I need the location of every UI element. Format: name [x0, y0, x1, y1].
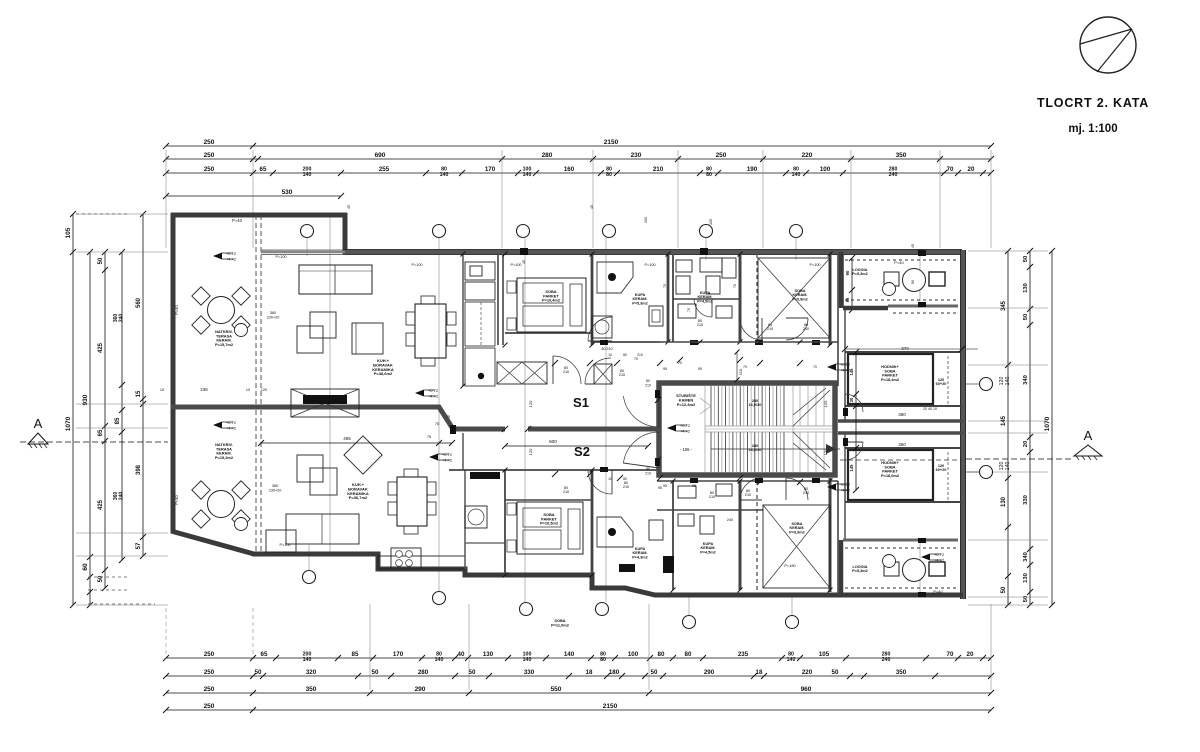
outer wall terrace top-left	[171, 213, 347, 218]
svg-text:P=38,6m2: P=38,6m2	[374, 371, 393, 376]
svg-text:65: 65	[260, 166, 267, 173]
svg-text:15: 15	[136, 390, 142, 397]
svg-text:210: 210	[697, 323, 703, 327]
soba S2 bed	[517, 502, 583, 554]
svg-text:290: 290	[415, 686, 426, 693]
svg-text:425: 425	[98, 499, 104, 510]
loggia lower walls	[839, 540, 844, 595]
corridor wall right of band	[837, 254, 839, 386]
svg-text:145: 145	[1001, 415, 1007, 426]
svg-text:250: 250	[204, 139, 215, 146]
svg-text:140: 140	[435, 657, 444, 663]
svg-text:P=9,9m2: P=9,9m2	[792, 297, 808, 301]
svg-text:P=9,9m2: P=9,9m2	[789, 530, 805, 534]
top dim row segments	[166, 158, 991, 160]
right wing cross walls	[845, 352, 962, 406]
svg-text:350: 350	[896, 669, 907, 676]
left dim 560	[142, 214, 144, 556]
entry door arcs at stair	[623, 396, 659, 427]
dining table S1	[415, 304, 446, 358]
closet dashed upper right	[947, 356, 949, 404]
dining table S2	[397, 477, 427, 526]
svg-text:95: 95	[658, 486, 662, 490]
svg-text:P=40: P=40	[232, 218, 243, 223]
right outer wall	[960, 250, 966, 599]
svg-text:250: 250	[204, 651, 215, 658]
svg-text:60+20: 60+20	[936, 468, 947, 472]
svg-text:20 40 10: 20 40 10	[923, 407, 937, 411]
svg-text:10: 10	[608, 477, 612, 481]
svg-text:P=40: P=40	[174, 304, 179, 314]
loggia upper furniture	[884, 272, 899, 286]
svg-text:230+20: 230+20	[269, 489, 282, 493]
svg-text:180: 180	[609, 669, 620, 676]
svg-text:70: 70	[947, 166, 954, 173]
svg-text:45: 45	[347, 205, 351, 209]
extra fixtures density WC rooms	[678, 304, 696, 318]
svg-text:220: 220	[802, 152, 813, 159]
axis circles bottom	[303, 571, 799, 629]
section dashed line through right wing	[840, 459, 962, 461]
svg-text:140: 140	[440, 172, 449, 178]
right wing vdim	[851, 258, 853, 310]
svg-text:TLOCRT 2. KATA: TLOCRT 2. KATA	[1037, 96, 1149, 110]
svg-text:50: 50	[1001, 586, 1007, 593]
svg-text:690: 690	[375, 152, 386, 159]
svg-text:45: 45	[911, 244, 915, 248]
svg-text:210: 210	[563, 490, 569, 494]
svg-text:140: 140	[303, 172, 312, 178]
top dim row 2150	[166, 145, 991, 147]
svg-text:600: 600	[549, 439, 557, 444]
svg-text:1070: 1070	[1044, 416, 1051, 431]
S2 corridor walls	[462, 433, 464, 470]
svg-text:+0.72: +0.72	[226, 251, 237, 256]
svg-text:- 155 -: - 155 -	[680, 447, 693, 452]
svg-text:P=100: P=100	[510, 263, 521, 267]
kitchen appliances S1	[465, 262, 495, 280]
svg-text:70: 70	[663, 284, 667, 288]
axis lines vertical	[307, 216, 920, 615]
svg-text:120: 120	[528, 400, 533, 407]
section marker A left	[20, 416, 168, 448]
bottom dim row B	[166, 675, 991, 677]
svg-text:57: 57	[136, 542, 142, 549]
svg-text:340: 340	[1023, 375, 1029, 385]
svg-text:145: 145	[849, 368, 854, 376]
svg-text:60: 60	[82, 563, 89, 571]
bottom wall steps	[252, 554, 838, 595]
svg-text:18: 18	[586, 669, 593, 676]
svg-text:90: 90	[845, 270, 850, 275]
S2 kitchen appliance black	[470, 472, 500, 479]
svg-text:110: 110	[738, 368, 743, 375]
top dim row 530	[166, 195, 341, 197]
svg-text:70: 70	[687, 308, 691, 312]
soba S1 bed	[517, 278, 586, 332]
svg-text:15: 15	[160, 388, 164, 392]
svg-text:+4.42: +4.42	[226, 426, 237, 431]
svg-text:70: 70	[813, 365, 817, 369]
svg-text:30: 30	[849, 397, 854, 402]
svg-text:A: A	[1084, 428, 1093, 443]
svg-text:P=4,3m2: P=4,3m2	[632, 555, 648, 559]
S2 kitchen counter bottom	[378, 556, 465, 569]
upper hallway wall above stair	[660, 341, 838, 343]
svg-text:250: 250	[716, 152, 727, 159]
bottom-left diagonal wall	[171, 531, 254, 554]
svg-text:130: 130	[483, 651, 494, 658]
svg-text:50: 50	[98, 575, 104, 582]
svg-text:+4.42: +4.42	[442, 458, 453, 463]
svg-text:45: 45	[522, 260, 526, 264]
svg-text:P=5,3m2: P=5,3m2	[632, 301, 648, 305]
kitchen sink unit on divider	[291, 389, 359, 417]
svg-text:250: 250	[204, 686, 215, 693]
svg-text:50: 50	[651, 669, 658, 676]
double wall right wing	[838, 421, 963, 433]
svg-text:10: 10	[608, 353, 612, 357]
kupa S1 fixtures	[597, 262, 633, 293]
svg-text:210: 210	[623, 485, 629, 489]
svg-text:210: 210	[745, 493, 751, 497]
loggia lower furniture	[884, 562, 899, 576]
svg-text:80: 80	[685, 651, 692, 658]
svg-text:50: 50	[832, 669, 839, 676]
svg-text:+0.72: +0.72	[934, 552, 945, 557]
svg-text:50: 50	[372, 669, 379, 676]
svg-text:240: 240	[727, 518, 733, 522]
right dim chain 1	[1007, 251, 1009, 605]
svg-text:65: 65	[98, 429, 104, 436]
svg-text:80: 80	[646, 467, 650, 471]
svg-text:105: 105	[819, 651, 830, 658]
svg-text:80: 80	[623, 353, 627, 357]
soba S1 walls	[591, 254, 594, 345]
left top dashed	[76, 213, 130, 215]
top dim row detail	[166, 172, 991, 174]
axis circles top	[301, 225, 803, 238]
svg-text:210: 210	[637, 353, 643, 357]
svg-text:250: 250	[204, 669, 215, 676]
gard S1 with X wardrobe	[756, 254, 758, 342]
svg-text:250: 250	[204, 166, 215, 173]
svg-text:100: 100	[644, 217, 648, 223]
door arcs corridor S1	[553, 356, 581, 384]
svg-text:235: 235	[200, 387, 208, 392]
svg-text:50: 50	[98, 257, 104, 264]
svg-text:80: 80	[606, 172, 612, 178]
svg-text:50: 50	[255, 669, 262, 676]
svg-text:P=4,5m2: P=4,5m2	[700, 550, 716, 554]
axis circles right	[966, 378, 993, 479]
svg-text:P=40: P=40	[933, 589, 943, 594]
svg-text:370: 370	[901, 346, 909, 351]
svg-text:280: 280	[418, 669, 429, 676]
kitchen counter row S1	[497, 362, 547, 384]
svg-text:210: 210	[803, 327, 809, 331]
svg-text:495: 495	[343, 436, 351, 441]
svg-text:140: 140	[1005, 377, 1011, 386]
svg-text:210: 210	[645, 384, 651, 388]
svg-text:340: 340	[1023, 552, 1029, 562]
svg-text:210: 210	[803, 491, 809, 495]
stair winder diagonals	[793, 388, 830, 470]
svg-text:+0.72: +0.72	[840, 362, 851, 367]
svg-text:140: 140	[787, 657, 796, 663]
svg-text:560: 560	[136, 297, 142, 308]
stairwell walls	[659, 383, 835, 475]
svg-text:130: 130	[1023, 573, 1029, 583]
svg-text:P=40: P=40	[894, 260, 904, 265]
svg-text:140: 140	[523, 172, 532, 178]
svg-text:240: 240	[119, 492, 125, 501]
loggia upper walls	[839, 252, 844, 308]
svg-text:+4.42: +4.42	[680, 429, 691, 434]
svg-text:250: 250	[204, 152, 215, 159]
armchairs S1	[310, 312, 336, 338]
svg-text:+0.72: +0.72	[840, 482, 851, 487]
svg-text:330: 330	[524, 669, 535, 676]
svg-text:80 210: 80 210	[602, 347, 613, 351]
svg-text:2150: 2150	[603, 703, 618, 710]
svg-text:+4.42: +4.42	[934, 558, 945, 563]
right dim 1070	[1051, 251, 1053, 605]
svg-text:+4.42: +4.42	[428, 394, 439, 399]
svg-text:145: 145	[849, 464, 854, 472]
bottom wall loggia right	[838, 593, 963, 598]
svg-text:120: 120	[528, 448, 533, 455]
section marker A right	[966, 428, 1102, 460]
wall step terrace to main	[343, 213, 348, 254]
svg-text:50: 50	[1023, 596, 1029, 602]
svg-text:+0.72: +0.72	[680, 423, 691, 428]
left dim 1070	[72, 214, 74, 605]
svg-text:+4.42: +4.42	[226, 257, 237, 262]
divider wall S1/S2 left	[171, 407, 505, 429]
svg-text:530: 530	[282, 189, 293, 196]
svg-text:P=15,2m2: P=15,2m2	[215, 455, 234, 460]
stair flight arrow	[711, 448, 840, 450]
svg-text:75: 75	[435, 422, 439, 426]
left bottom dashed rows	[88, 577, 155, 604]
vertical dim 110 corridor	[736, 352, 738, 380]
svg-text:140: 140	[1005, 462, 1011, 471]
svg-text:20: 20	[968, 166, 975, 173]
svg-text:P=11,0m2: P=11,0m2	[551, 622, 570, 627]
extension lines right	[968, 251, 1048, 605]
main top wall	[345, 249, 962, 255]
kitchen column wall	[462, 254, 464, 386]
svg-text:230: 230	[631, 152, 642, 159]
sofa S1 top	[299, 265, 372, 294]
svg-text:105: 105	[65, 227, 72, 238]
left dim 360	[121, 252, 123, 560]
svg-text:140: 140	[564, 651, 575, 658]
svg-text:398: 398	[136, 464, 142, 475]
soba S2 walls	[504, 470, 506, 575]
svg-text:130: 130	[1023, 283, 1029, 293]
right wing door arcs	[845, 394, 863, 412]
svg-text:100: 100	[628, 651, 639, 658]
svg-text:360: 360	[898, 412, 906, 417]
svg-text:P=36,7m2: P=36,7m2	[349, 495, 368, 500]
right dim chain 2	[1029, 251, 1031, 605]
svg-text:80: 80	[646, 379, 650, 383]
extension lines bottom	[166, 608, 253, 654]
svg-text:120: 120	[823, 400, 828, 407]
svg-text:320: 320	[306, 669, 317, 676]
svg-text:+0.72: +0.72	[226, 420, 237, 425]
right wing vdim2	[855, 352, 857, 490]
svg-text:50: 50	[1023, 256, 1029, 262]
left dim 425	[104, 252, 106, 588]
svg-text:210: 210	[709, 495, 715, 499]
svg-text:P=15,7m2: P=15,7m2	[215, 342, 234, 347]
closet dashed lower right	[947, 452, 949, 500]
svg-text:160: 160	[564, 166, 575, 173]
svg-text:80: 80	[706, 172, 712, 178]
svg-text:120: 120	[261, 388, 267, 392]
svg-text:1070: 1070	[65, 416, 72, 431]
svg-text:P=100: P=100	[644, 263, 655, 267]
svg-text:210: 210	[619, 373, 625, 377]
logo circle	[1080, 17, 1136, 73]
svg-text:930: 930	[82, 394, 89, 405]
svg-text:80: 80	[658, 651, 665, 658]
svg-text:210: 210	[563, 370, 569, 374]
svg-text:345: 345	[1001, 300, 1007, 311]
svg-text:mj. 1:100: mj. 1:100	[1068, 123, 1117, 135]
svg-text:P=100: P=100	[279, 543, 290, 547]
svg-text:140: 140	[792, 172, 801, 178]
svg-text:40: 40	[458, 651, 465, 658]
svg-text:75: 75	[446, 415, 450, 419]
gard S2 with X	[756, 481, 758, 590]
svg-text:P=40: P=40	[174, 494, 179, 504]
bottom dim row 2150	[166, 709, 991, 711]
svg-text:P=180: P=180	[784, 563, 796, 568]
stair treads	[711, 386, 784, 472]
svg-text:45: 45	[590, 205, 594, 209]
svg-text:95: 95	[663, 484, 667, 488]
terrace lower table	[192, 481, 250, 531]
svg-text:360: 360	[270, 311, 276, 315]
svg-text:250: 250	[204, 703, 215, 710]
svg-text:190: 190	[747, 166, 758, 173]
svg-text:95: 95	[698, 367, 702, 371]
svg-text:330: 330	[1023, 495, 1029, 505]
svg-text:210: 210	[645, 472, 651, 476]
svg-text:65: 65	[261, 651, 268, 658]
svg-text:140: 140	[523, 657, 532, 663]
svg-text:230+20: 230+20	[267, 316, 280, 320]
svg-text:235: 235	[738, 651, 749, 658]
svg-text:210: 210	[767, 327, 773, 331]
svg-text:50: 50	[1023, 314, 1029, 320]
svg-text:P=18,0m2: P=18,0m2	[881, 473, 900, 478]
svg-text:85: 85	[115, 417, 121, 424]
extension lines top	[166, 150, 991, 248]
svg-text:140: 140	[303, 657, 312, 663]
wc S1 walls	[673, 298, 740, 300]
couch S2	[286, 514, 359, 544]
svg-text:170: 170	[485, 166, 496, 173]
svg-text:P=100: P=100	[275, 255, 286, 259]
bottom dim row detail	[166, 657, 991, 659]
svg-text:2150: 2150	[604, 139, 619, 146]
right corridor walls bottom	[837, 481, 839, 595]
svg-text:360: 360	[272, 484, 278, 488]
under-stair band S2	[657, 480, 838, 482]
divider wall S1/S2 mid	[528, 427, 658, 432]
svg-text:60+20: 60+20	[936, 382, 947, 386]
glazed wall terrace upper (dashed)	[256, 215, 261, 553]
svg-text:75: 75	[427, 435, 431, 439]
bottom dim row C	[166, 692, 991, 694]
svg-text:P=4,5m2: P=4,5m2	[697, 299, 713, 303]
svg-text:70: 70	[733, 284, 737, 288]
svg-text:+0.72: +0.72	[442, 452, 453, 457]
svg-text:255: 255	[379, 166, 390, 173]
svg-text:P=12,3m2: P=12,3m2	[677, 402, 696, 407]
svg-text:P=5,3m2: P=5,3m2	[852, 272, 868, 276]
svg-text:70: 70	[743, 365, 747, 369]
svg-text:90: 90	[911, 280, 915, 284]
svg-text:280: 280	[542, 152, 553, 159]
svg-text:+4.42: +4.42	[840, 488, 851, 493]
svg-text:85: 85	[352, 651, 359, 658]
svg-text:220: 220	[802, 669, 813, 676]
left dim 930	[89, 252, 91, 605]
svg-text:P=10,4m2: P=10,4m2	[542, 298, 561, 303]
svg-text:960: 960	[801, 686, 812, 693]
black thresholds at doors	[450, 248, 926, 597]
svg-text:170: 170	[393, 651, 404, 658]
hallway ticks	[698, 340, 803, 345]
beam line above S1 living	[261, 251, 345, 254]
svg-text:350: 350	[896, 152, 907, 159]
svg-text:240: 240	[889, 172, 898, 178]
svg-text:105: 105	[709, 219, 713, 225]
svg-text:P=5,3m2: P=5,3m2	[852, 569, 868, 573]
kupa S1 walls	[667, 254, 670, 342]
svg-text:+0.72: +0.72	[428, 388, 439, 393]
svg-text:80: 80	[623, 477, 627, 481]
svg-text:80: 80	[600, 657, 606, 663]
room lower right	[848, 450, 933, 500]
svg-text:425: 425	[98, 342, 104, 353]
room upper right	[848, 354, 933, 404]
washer S2	[465, 506, 487, 528]
svg-text:16,0/30: 16,0/30	[749, 403, 762, 407]
extension lines left	[76, 214, 168, 605]
terrace upper table	[192, 287, 250, 337]
svg-text:50: 50	[469, 669, 476, 676]
extra fixtures upper WC rooms	[676, 276, 690, 294]
svg-text:P=100: P=100	[411, 263, 422, 267]
svg-text:350: 350	[306, 686, 317, 693]
svg-text:240: 240	[119, 314, 125, 323]
svg-text:70: 70	[947, 651, 954, 658]
right wing corridor	[844, 310, 846, 421]
svg-text:70: 70	[634, 357, 638, 361]
svg-text:550: 550	[551, 686, 562, 693]
svg-text:P=18,4m2: P=18,4m2	[881, 377, 900, 382]
svg-text:10: 10	[246, 388, 250, 392]
svg-text:20: 20	[967, 651, 974, 658]
svg-text:18: 18	[756, 669, 763, 676]
